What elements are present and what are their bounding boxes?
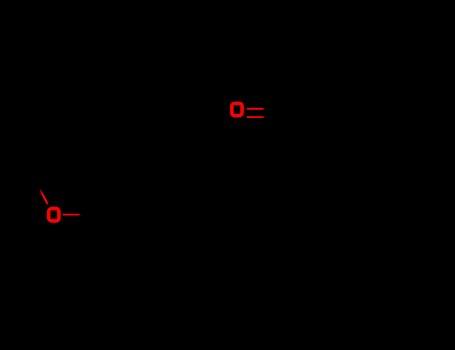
bond B1-B2 [300, 130, 319, 163]
double bond C7=O2 lower red line [247, 116, 265, 118]
bond C7-B1 [281, 113, 300, 130]
bond C5-C6 [117, 247, 155, 249]
bond C4-Cb [174, 193, 212, 215]
bond C4-C5 [155, 215, 174, 248]
ring A (4-methoxyphenyl), black bonds invisible on black [98, 182, 174, 248]
bond CH3-O1 red half (oxygen end) [40, 189, 48, 204]
double bond C7=O2 upper red line [247, 108, 265, 110]
bond C1-C2 [98, 182, 117, 215]
atom label O1 (methoxy oxygen) [49, 209, 59, 221]
vinyl chain (invisible black bonds) [174, 113, 281, 215]
atom label O2 (carbonyl oxygen) [232, 103, 242, 115]
bond B6-B1 [300, 97, 319, 130]
bond B3-B4 [357, 130, 376, 163]
bond C3-C4 [155, 182, 174, 215]
bond B2-B3 [319, 162, 357, 164]
bond B5-B6 [319, 96, 357, 98]
bond C6-C1 [98, 215, 117, 248]
bond C7 chain up to carbonyl carbon [280, 113, 282, 149]
double bond Cb=Ca [212, 171, 243, 193]
double bond C7=O2 black halves (carbon end, invisible on black) [264, 108, 278, 110]
bond CH3-O1 black half (methyl end, invisible on black) [34, 178, 41, 191]
bond O1-C1 black half (ring end, invisible on black) [81, 214, 99, 216]
aromatic inner line C4-C5 [152, 217, 167, 242]
bond B4-B5 [357, 97, 376, 130]
aromatic inner line C6-C1 [107, 217, 122, 242]
bond O1-C1 red half (oxygen end) [63, 214, 81, 216]
aromatic inner line C2-C3 [122, 187, 151, 189]
ring B (phenyl on carbonyl), black bonds invisible on black [281, 97, 376, 163]
bond C2-C3 [117, 181, 155, 183]
bond Ca-C7 [243, 149, 281, 171]
